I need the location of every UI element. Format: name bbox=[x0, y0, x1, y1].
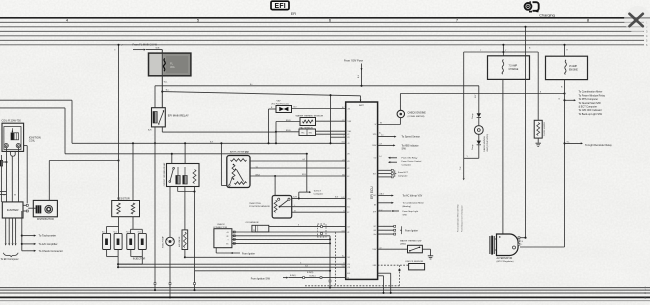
feed wire span bbox=[464, 51, 539, 53]
svg-text:VF: VF bbox=[253, 230, 255, 232]
wire B-L from IGN fuse bbox=[155, 85, 479, 87]
svg-text:THW: THW bbox=[372, 249, 376, 251]
svg-text:E1: E1 bbox=[226, 243, 228, 245]
svg-text:AIR VALVE: AIR VALVE bbox=[178, 236, 181, 247]
relay ground wire bbox=[178, 187, 196, 271]
wire BATT bbox=[360, 96, 362, 102]
wire vsv to computer bbox=[292, 107, 346, 109]
svg-text:EFI: EFI bbox=[275, 3, 286, 10]
svg-text:G-B: G-B bbox=[305, 265, 308, 267]
wire to A/C amplifier bbox=[21, 242, 58, 246]
svg-text:IGd: IGd bbox=[373, 234, 376, 236]
wire engine fuse to alternator S bbox=[520, 246, 565, 248]
wire to air flow meter bbox=[220, 142, 226, 185]
air valve wires bbox=[184, 250, 346, 259]
svg-text:E: E bbox=[298, 225, 299, 227]
wire to tachometer bbox=[21, 211, 56, 251]
wire lower run bbox=[193, 270, 331, 291]
wire color labels bbox=[210, 50, 542, 267]
junction wire down to bus bbox=[329, 236, 331, 289]
svg-text:From Igniter: From Igniter bbox=[405, 229, 418, 232]
svg-text:No.3: No.3 bbox=[126, 231, 129, 233]
wire to resistor bbox=[114, 44, 123, 201]
wire to combination meter bbox=[378, 202, 425, 208]
knock sensor bbox=[406, 261, 425, 270]
svg-text:E2: E2 bbox=[347, 212, 349, 214]
wire lamp to computer W bbox=[378, 118, 401, 125]
svg-text:CHARGE WARNING: CHARGE WARNING bbox=[483, 136, 486, 152]
svg-text:#10: #10 bbox=[347, 264, 350, 266]
air valve bbox=[178, 230, 188, 250]
svg-text:From Emission Control Computer: From Emission Control Computer bbox=[460, 205, 463, 232]
svg-text:COIL: COIL bbox=[29, 139, 36, 143]
hac feed wire bbox=[276, 130, 299, 132]
svg-text:Charge: Charge bbox=[471, 113, 474, 119]
wires from igniter bbox=[378, 225, 418, 235]
svg-text:From Cruise Control: From Cruise Control bbox=[402, 160, 422, 163]
svg-text:CHARGE: CHARGE bbox=[509, 68, 519, 71]
svg-text:To Back-up Light S/W: To Back-up Light S/W bbox=[579, 113, 603, 116]
wire fuse to check engine lamp bbox=[400, 92, 565, 110]
svg-text:30A: 30A bbox=[170, 65, 175, 69]
fusible link block bbox=[149, 53, 191, 76]
svg-text:To Combination Meter: To Combination Meter bbox=[403, 202, 425, 205]
svg-text:To A/C Amplifier: To A/C Amplifier bbox=[39, 242, 58, 246]
svg-text:VF: VF bbox=[347, 232, 349, 234]
wire IG main bbox=[0, 108, 308, 155]
svg-text:+B1: +B1 bbox=[347, 108, 350, 110]
svg-text:POSITION SENSOR: POSITION SENSOR bbox=[249, 206, 270, 208]
wire bus to alternator L bbox=[520, 26, 531, 239]
condenser bbox=[0, 160, 7, 166]
svg-text:W: W bbox=[14, 195, 16, 197]
wire from igniter to check connector bbox=[216, 248, 255, 256]
svg-text:CHECK ENGINE: CHECK ENGINE bbox=[408, 112, 427, 115]
wire to AC idle-up VSV bbox=[378, 192, 423, 197]
svg-text:(W/ IC Regulator): (W/ IC Regulator) bbox=[497, 260, 514, 263]
knock sensor shielded wire bbox=[378, 265, 409, 286]
svg-text:B-L: B-L bbox=[342, 256, 345, 258]
wire relay to fuel pump bbox=[169, 187, 171, 238]
svg-text:To ECT: To ECT bbox=[314, 190, 322, 192]
computer B+ branch wires bbox=[329, 94, 345, 144]
grid numbers 4-8 bbox=[66, 18, 590, 23]
relay output wires bbox=[148, 127, 276, 291]
tps wire IDL bbox=[280, 205, 346, 207]
svg-text:THROTTLE: THROTTLE bbox=[249, 203, 261, 205]
svg-text:INJECTOR: INJECTOR bbox=[133, 258, 146, 261]
check engine lamp bbox=[397, 110, 426, 118]
svg-text:From ‘IGN’ Fuse: From ‘IGN’ Fuse bbox=[344, 59, 363, 63]
svg-text:To PPS Computer: To PPS Computer bbox=[579, 98, 599, 101]
wire from cruise control computer bbox=[388, 160, 422, 166]
svg-text:No.4: No.4 bbox=[138, 231, 141, 233]
afm wire VS bbox=[250, 160, 346, 162]
label Charging bbox=[539, 13, 554, 17]
air flow meter bbox=[227, 151, 250, 188]
tps wire VTA bbox=[292, 197, 346, 200]
svg-text:(Analog): (Analog) bbox=[403, 205, 412, 208]
injector feed wires bbox=[107, 217, 143, 234]
relay pin from IGN line bbox=[154, 86, 156, 108]
water thermo switch ground bbox=[422, 249, 433, 259]
svg-text:Computer: Computer bbox=[398, 174, 408, 177]
tps wire E2 bbox=[292, 210, 346, 212]
wire to speed sensor bbox=[378, 134, 420, 138]
svg-text:B-L: B-L bbox=[358, 75, 360, 78]
svg-text:No.2: No.2 bbox=[114, 231, 117, 233]
distributor signal wire bbox=[49, 159, 119, 200]
svg-text:From Ignition S/W: From Ignition S/W bbox=[251, 278, 271, 281]
water thermo sensor bbox=[296, 114, 324, 125]
close button bbox=[624, 6, 650, 33]
svg-text:B-W: B-W bbox=[293, 197, 297, 199]
water thermo switch 4WD bbox=[378, 239, 423, 252]
svg-text:G-B: G-B bbox=[342, 266, 345, 268]
label INJECTOR bbox=[133, 258, 146, 261]
throttle position sensor bbox=[249, 196, 291, 219]
svg-text:To O/D OFF Indicator: To O/D OFF Indicator bbox=[579, 109, 602, 112]
wires from ECT computer bbox=[378, 169, 409, 177]
relay coil feed wires bbox=[171, 142, 186, 163]
svg-text:Computer: Computer bbox=[402, 163, 412, 166]
svg-text:B-W: B-W bbox=[341, 197, 345, 199]
svg-text:E01: E01 bbox=[347, 273, 350, 275]
svg-text:IDL: IDL bbox=[347, 207, 350, 209]
tps feed wire bbox=[274, 175, 276, 196]
svg-text:COIL-R 20W-750: COIL-R 20W-750 bbox=[2, 120, 22, 123]
wts feed wire bbox=[275, 120, 300, 145]
svg-text:From Combination Meter O/D S/W: From Combination Meter O/D S/W bbox=[457, 204, 460, 232]
computer ground wires bbox=[378, 273, 392, 294]
svg-text:No.1: No.1 bbox=[102, 231, 105, 233]
svg-text:CHECK: CHECK bbox=[217, 224, 225, 226]
svg-text:B-W: B-W bbox=[245, 152, 249, 154]
svg-text:#20: #20 bbox=[347, 267, 350, 269]
igniter right pins bbox=[23, 204, 36, 212]
choke heater bbox=[534, 52, 546, 146]
svg-text:B-L: B-L bbox=[250, 84, 253, 86]
coil secondary wire bbox=[24, 146, 28, 204]
distributor bbox=[33, 200, 57, 220]
wire bus to engine fuse bbox=[563, 44, 568, 56]
svg-text:BR-B: BR-B bbox=[302, 174, 306, 176]
wire from ignition switch bbox=[251, 272, 346, 281]
vsv feed wire bbox=[267, 107, 276, 144]
load list labels bbox=[579, 91, 606, 116]
wire to check connector bbox=[22, 249, 63, 253]
svg-text:CHOKE HEATER: CHOKE HEATER bbox=[543, 121, 546, 136]
wire to ABS indicator bbox=[378, 144, 419, 150]
svg-text:To ABS Indicator: To ABS Indicator bbox=[402, 144, 419, 147]
wire wts to computer bbox=[316, 120, 346, 122]
svg-text:E2: E2 bbox=[347, 176, 349, 178]
circuit opening relay bbox=[163, 162, 199, 187]
wire from stop light switch bbox=[378, 210, 419, 216]
wire +B main bbox=[0, 100, 346, 143]
label EFI bbox=[291, 12, 296, 16]
svg-text:To Power Window Relay: To Power Window Relay bbox=[579, 94, 606, 97]
svg-text:B-W(R): B-W(R) bbox=[307, 272, 314, 274]
svg-text:& ECT Computer: & ECT Computer bbox=[579, 105, 598, 108]
check connector bbox=[213, 224, 235, 248]
fuel pump ground wire bbox=[169, 246, 171, 299]
branch to body loads bbox=[565, 99, 577, 101]
svg-text:From Igniter: From Igniter bbox=[242, 252, 255, 255]
svg-text:IGNITER: IGNITER bbox=[7, 208, 19, 212]
injector No.1 bbox=[102, 231, 111, 249]
svg-text:7.5 AMP: 7.5 AMP bbox=[509, 65, 518, 68]
charge warning light circuit bbox=[471, 86, 489, 159]
injector No.4 bbox=[138, 231, 147, 249]
svg-text:From ECT: From ECT bbox=[398, 171, 409, 174]
ox sensor bbox=[246, 222, 269, 232]
svg-text:Charging: Charging bbox=[539, 13, 554, 17]
svg-text:To Tachometer: To Tachometer bbox=[39, 234, 57, 238]
svg-text:B: B bbox=[343, 211, 344, 213]
wire charge fuse to alternator bbox=[502, 79, 504, 234]
wire OD switch junction bbox=[457, 52, 479, 232]
svg-text:EFI: EFI bbox=[291, 12, 296, 16]
wire fusible link to computer BATT bbox=[162, 90, 360, 96]
wire fusible link to EFI main relay bbox=[161, 50, 168, 108]
shielded connector dashed bbox=[318, 224, 327, 237]
svg-text:3: 3 bbox=[114, 50, 115, 52]
svg-text:T-W: T-W bbox=[460, 166, 462, 170]
top frame line bbox=[0, 17, 650, 19]
svg-text:(COMB. METER): (COMB. METER) bbox=[408, 116, 425, 118]
alternator bbox=[490, 234, 524, 263]
svg-text:4-5: 4-5 bbox=[381, 134, 384, 136]
svg-text:BATT: BATT bbox=[359, 104, 365, 107]
shield ground dashed bbox=[305, 232, 399, 286]
svg-text:Charge: Charge bbox=[471, 144, 474, 150]
EFI page badge bbox=[271, 1, 289, 10]
coil to igniter wires bbox=[1, 148, 18, 202]
VSV for fuel pressure bbox=[272, 100, 292, 112]
resistor feed wire 2 bbox=[132, 142, 134, 200]
svg-text:From Stop Light: From Stop Light bbox=[403, 210, 419, 213]
wire B to loads bbox=[559, 80, 566, 247]
svg-text:IGF: IGF bbox=[373, 230, 376, 232]
svg-text:BR-B: BR-B bbox=[286, 130, 291, 132]
svg-text:DISTRIBUTOR: DISTRIBUTOR bbox=[37, 218, 54, 221]
svg-text:To Combination Meter: To Combination Meter bbox=[579, 91, 603, 94]
wire to light reminder relay bbox=[565, 141, 613, 147]
svg-text:ENGINE: ENGINE bbox=[569, 69, 578, 71]
svg-text:VF: VF bbox=[226, 236, 228, 238]
top bus wires bbox=[0, 21, 648, 48]
svg-text:L: L bbox=[344, 136, 345, 138]
svg-text:W: W bbox=[380, 122, 382, 124]
afm wire VC bbox=[250, 166, 346, 168]
svg-text:LIGHT (COMB METER): LIGHT (COMB METER) bbox=[487, 134, 489, 152]
svg-text:B-R: B-R bbox=[148, 130, 152, 132]
branch to ECT computer bbox=[299, 190, 324, 198]
svg-text:To Light Reminder Relay: To Light Reminder Relay bbox=[585, 144, 612, 147]
wire from OD relay bbox=[388, 157, 418, 160]
wire injectors to computer no10 bbox=[118, 263, 346, 265]
svg-text:G-L: G-L bbox=[567, 141, 570, 143]
fuel pump bbox=[163, 236, 175, 248]
wire relay to air valve bbox=[184, 187, 186, 230]
wire ox sensor to computer bbox=[269, 226, 346, 228]
wire to ECT branch bbox=[306, 154, 308, 192]
label From FL MAIN 2.0 W bbox=[133, 43, 163, 51]
svg-text:B-W(L): B-W(L) bbox=[290, 275, 296, 277]
svg-text:EFI MAIN RELAY: EFI MAIN RELAY bbox=[168, 114, 189, 118]
svg-text:Computer: Computer bbox=[314, 192, 324, 195]
svg-text:EFI ECU: EFI ECU bbox=[370, 186, 374, 199]
svg-text:L: L bbox=[294, 205, 295, 207]
ignition coil bbox=[2, 120, 41, 156]
svg-text:ALTERNATOR: ALTERNATOR bbox=[497, 257, 513, 260]
bottom bus wires bbox=[0, 287, 650, 301]
hac sensor bbox=[299, 127, 316, 136]
igniter bbox=[2, 202, 23, 218]
wire bus to charge fuse bbox=[502, 44, 507, 56]
svg-text:L-W: L-W bbox=[302, 159, 305, 161]
svg-text:KNOCK SENSOR: KNOCK SENSOR bbox=[406, 261, 424, 263]
resistor block bbox=[112, 198, 140, 217]
svg-text:From FL MAIN 2.0 W: From FL MAIN 2.0 W bbox=[133, 43, 158, 47]
svg-text:FUEL PUMP: FUEL PUMP bbox=[163, 236, 165, 248]
svg-text:CIRCUIT OPENING RELAY: CIRCUIT OPENING RELAY bbox=[163, 162, 166, 186]
svg-text:From O/D Relay: From O/D Relay bbox=[402, 157, 419, 160]
svg-text:WATER THERMO SENSOR: WATER THERMO SENSOR bbox=[296, 114, 324, 117]
battery charging icon bbox=[525, 1, 539, 11]
fuse 15A engine bbox=[546, 56, 588, 79]
injector ground rail bbox=[107, 250, 143, 269]
svg-text:OX SENSOR: OX SENSOR bbox=[246, 222, 259, 224]
injector No.3 bbox=[126, 231, 135, 249]
fuse 7.5A charge bbox=[488, 56, 530, 80]
svg-text:To Check Connector: To Check Connector bbox=[39, 249, 63, 253]
svg-text:WATER THERMO S/W: WATER THERMO S/W bbox=[400, 239, 421, 242]
EFI computer bbox=[341, 102, 382, 280]
EFI main relay bbox=[152, 108, 190, 127]
svg-text:BR-B: BR-B bbox=[286, 120, 291, 122]
wire check connector VF to computer bbox=[232, 231, 346, 233]
svg-text:IGT: IGT bbox=[373, 226, 376, 228]
check connector rows to junction bbox=[232, 236, 331, 245]
afm wire E2 bbox=[250, 174, 346, 176]
svg-text:ECT: ECT bbox=[373, 174, 376, 176]
wires hac to computer bbox=[316, 131, 346, 134]
svg-text:B-W(L): B-W(L) bbox=[310, 276, 316, 278]
svg-text:To Speed Sensor: To Speed Sensor bbox=[402, 136, 421, 139]
wire injectors to computer no20 bbox=[118, 266, 346, 268]
igniter output wires to EFI computer bbox=[1, 218, 19, 261]
svg-text:To EFI Computer: To EFI Computer bbox=[1, 258, 19, 261]
left edge stubs bbox=[0, 192, 7, 195]
svg-text:T-L: T-L bbox=[256, 166, 259, 168]
injector No.2 bbox=[114, 231, 123, 249]
label From IGN Fuse bbox=[344, 59, 363, 87]
svg-text:(4WD): (4WD) bbox=[400, 243, 406, 245]
svg-text:T: T bbox=[227, 239, 228, 241]
svg-text:To A/C Idle-up VSV: To A/C Idle-up VSV bbox=[403, 195, 423, 198]
svg-text:THW: THW bbox=[347, 121, 351, 123]
svg-text:VSV: VSV bbox=[277, 100, 282, 102]
svg-text:B-W: B-W bbox=[335, 197, 339, 199]
svg-text:NSW: NSW bbox=[372, 145, 376, 147]
svg-text:15 AMP: 15 AMP bbox=[569, 65, 578, 68]
